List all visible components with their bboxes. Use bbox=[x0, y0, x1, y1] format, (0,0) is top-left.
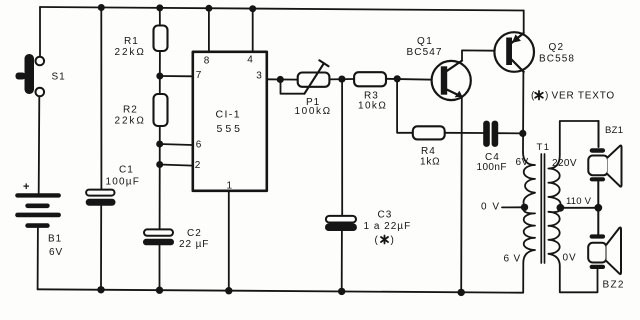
svg-text:CI-1: CI-1 bbox=[216, 109, 241, 121]
wire secondary 110V tap bbox=[560, 207, 598, 209]
svg-text:8: 8 bbox=[204, 55, 210, 66]
transistor Q2 emitter arrow bbox=[512, 34, 521, 43]
wire pin4 bbox=[252, 8, 254, 51]
svg-text:10kΩ: 10kΩ bbox=[358, 100, 387, 111]
svg-text:4: 4 bbox=[247, 54, 253, 65]
capacitor C1 bbox=[86, 190, 116, 206]
battery B1 bbox=[15, 193, 61, 228]
svg-text:R1: R1 bbox=[124, 36, 139, 47]
wire R3 to Q1 base bbox=[386, 79, 441, 80]
node primary tap junction bbox=[521, 204, 528, 211]
svg-text:Q1: Q1 bbox=[417, 36, 433, 47]
wire rail to R1 bbox=[159, 8, 161, 26]
node bottom rail C1 junction bbox=[97, 286, 104, 293]
capacitor C2 bbox=[143, 229, 174, 245]
transformer T1 primary winding bbox=[523, 152, 535, 293]
node bottom rail C2 junction bbox=[156, 287, 163, 294]
wire bottom ground rail bbox=[38, 289, 523, 292]
transistor Q2 bbox=[494, 32, 534, 72]
capacitor C3 bbox=[325, 216, 357, 231]
svg-text:100kΩ: 100kΩ bbox=[295, 106, 332, 117]
node top rail pin8 junction bbox=[205, 5, 212, 12]
svg-text:22kΩ: 22kΩ bbox=[115, 115, 146, 126]
wire C1 to bottom rail bbox=[100, 206, 102, 290]
svg-text:(: ( bbox=[531, 91, 535, 102]
wire pin2 bbox=[160, 165, 193, 166]
svg-text:T1: T1 bbox=[537, 142, 551, 153]
wire Q2 collector down bbox=[522, 72, 524, 152]
node pin3 junction bbox=[277, 76, 284, 83]
capacitor C4 bbox=[483, 121, 498, 147]
wire S1 to battery bbox=[38, 97, 41, 194]
svg-text:B1: B1 bbox=[48, 233, 62, 244]
wire primary center tap 0V bbox=[502, 206, 525, 208]
svg-text:555: 555 bbox=[217, 123, 244, 135]
wire R4 branch bbox=[397, 79, 413, 133]
svg-text:): ) bbox=[391, 235, 394, 246]
svg-text:22 µF: 22 µF bbox=[179, 239, 209, 250]
wire top supply rail bbox=[40, 7, 524, 11]
svg-text:2: 2 bbox=[195, 160, 201, 171]
wire top rail to Q2 emitter bbox=[523, 11, 525, 33]
resistor R2 bbox=[154, 94, 168, 126]
svg-text:Q2: Q2 bbox=[549, 42, 565, 53]
node R3-Q1-R4 junction bbox=[394, 75, 401, 82]
resistor R3 bbox=[354, 72, 386, 86]
wire C3 branch bbox=[341, 79, 343, 216]
op-amp U1 IC CI-1 555 box bbox=[193, 52, 267, 191]
svg-text:S1: S1 bbox=[52, 71, 66, 82]
svg-text:): ) bbox=[545, 91, 548, 102]
node pin2 junction bbox=[156, 161, 163, 168]
node top rail R1 junction bbox=[156, 4, 163, 11]
wire R1 to R2 bbox=[159, 51, 161, 94]
node pin7 junction bbox=[156, 73, 163, 80]
resistor R4 bbox=[413, 126, 445, 139]
node secondary tap junction bbox=[557, 204, 565, 212]
svg-text:BZ2: BZ2 bbox=[603, 280, 625, 291]
svg-text:BC547: BC547 bbox=[407, 47, 443, 58]
wire Q1 emitter down to ground bbox=[460, 97, 463, 293]
svg-text:6V: 6V bbox=[49, 247, 63, 258]
resistor R1 bbox=[154, 26, 168, 52]
svg-text:22kΩ: 22kΩ bbox=[115, 47, 146, 58]
svg-text:BC558: BC558 bbox=[539, 53, 575, 64]
wire pin7 bbox=[160, 75, 193, 77]
node bottom rail C3 junction bbox=[338, 288, 345, 295]
wire C4 to Q2 collector line bbox=[498, 132, 523, 134]
svg-text:BZ1: BZ1 bbox=[605, 125, 623, 136]
svg-text:C2: C2 bbox=[187, 228, 202, 239]
buzzer BZ2 bbox=[588, 208, 621, 274]
node bottom rail Q1 emitter junction bbox=[458, 289, 465, 296]
wire R4 to C4 bbox=[445, 132, 484, 134]
svg-text:1: 1 bbox=[227, 180, 233, 191]
svg-text:100µF: 100µF bbox=[106, 176, 141, 187]
transformer T1 core bbox=[541, 154, 544, 263]
wire pin1 to bottom rail bbox=[228, 191, 230, 291]
svg-text:C1: C1 bbox=[119, 164, 134, 175]
potentiometer P1 bbox=[298, 60, 330, 93]
transistor Q1 emitter arrow bbox=[455, 91, 463, 97]
svg-text:3: 3 bbox=[256, 70, 262, 81]
wire pin6 bbox=[160, 144, 193, 145]
svg-text:6: 6 bbox=[196, 139, 202, 150]
node pin6 junction bbox=[156, 141, 163, 148]
svg-text:R2: R2 bbox=[123, 104, 138, 115]
node bottom rail pin1 junction bbox=[225, 287, 232, 294]
svg-text:100nF: 100nF bbox=[477, 162, 507, 173]
transistor Q1 bbox=[432, 61, 471, 101]
buzzer BZ1 bbox=[588, 121, 621, 208]
wire C3 to bottom rail bbox=[341, 231, 343, 291]
node P1-R3-C3 junction bbox=[338, 76, 345, 83]
wire P1 wiper bbox=[281, 80, 305, 94]
switch S1 bbox=[16, 54, 45, 96]
transformer T1 secondary winding bbox=[548, 121, 598, 292]
svg-text:220V: 220V bbox=[552, 158, 577, 169]
wire top rail left drop to S1 bbox=[39, 7, 41, 56]
node top rail C1 junction bbox=[98, 4, 105, 11]
svg-text:0V: 0V bbox=[563, 252, 577, 263]
node BZ 110V junction bbox=[594, 204, 602, 212]
wire R2 to C2 bbox=[159, 126, 161, 229]
svg-text:0 V: 0 V bbox=[481, 201, 501, 212]
svg-text:(: ( bbox=[375, 235, 379, 246]
svg-text:1kΩ: 1kΩ bbox=[420, 156, 440, 167]
wire battery to bottom rail bbox=[37, 228, 39, 289]
wire P1 to R3 bbox=[329, 78, 354, 80]
svg-text:110 V: 110 V bbox=[566, 196, 592, 207]
node top rail pin4 junction bbox=[249, 5, 256, 12]
wire Q1 collector to Q2 base bbox=[462, 50, 506, 60]
svg-text:+: + bbox=[23, 181, 29, 193]
svg-text:7: 7 bbox=[196, 70, 202, 81]
wire C2 to bottom rail bbox=[159, 245, 161, 290]
svg-text:VER TEXTO: VER TEXTO bbox=[552, 91, 616, 102]
svg-text:6V: 6V bbox=[516, 157, 529, 168]
svg-text:C3: C3 bbox=[378, 209, 393, 220]
svg-text:1 a 22µF: 1 a 22µF bbox=[364, 221, 412, 232]
svg-text:R4: R4 bbox=[421, 146, 436, 157]
svg-text:6 V: 6 V bbox=[504, 253, 521, 264]
node C4-Q2-T1 junction bbox=[519, 130, 526, 137]
wire pin3 out bbox=[267, 78, 298, 80]
wire pin8 bbox=[208, 8, 210, 52]
wire C1 branch top bbox=[100, 8, 102, 190]
